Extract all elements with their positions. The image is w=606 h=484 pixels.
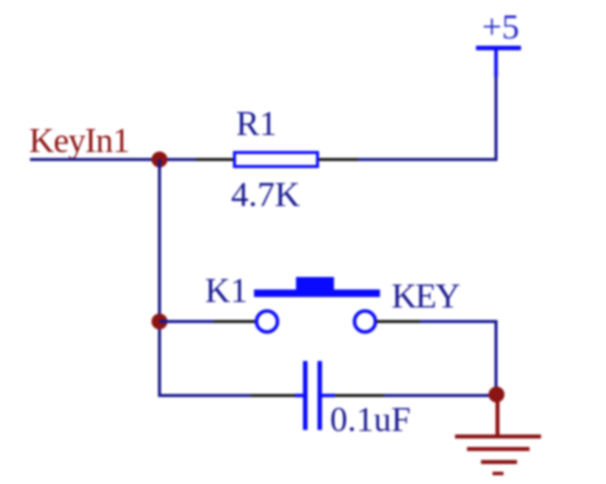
capacitor C1 plate right	[318, 361, 323, 430]
ground bar 4	[493, 472, 504, 476]
ground bar 3	[481, 460, 517, 464]
node A junction dot	[152, 152, 168, 168]
svg-text:4.7K: 4.7K	[231, 175, 300, 214]
resistor R1 pin 1	[196, 158, 233, 161]
resistor R1 body	[235, 153, 318, 167]
switch K1 contact circle left	[257, 311, 278, 332]
capacitor C1 pin 1	[251, 394, 296, 397]
resistor R1 pin 2	[319, 158, 358, 161]
power +5 stem	[494, 49, 498, 77]
node C junction dot	[489, 387, 505, 403]
svg-text:KEY: KEY	[392, 277, 461, 316]
wire: capacitor to ground node	[384, 394, 497, 397]
ground bar 2	[467, 447, 530, 451]
switch K1 actuator bump	[296, 277, 334, 290]
ground stem	[496, 395, 500, 436]
switch K1 contact circle right	[355, 311, 376, 332]
svg-text:KeyIn1: KeyIn1	[29, 121, 129, 160]
switch K1 pin 2	[377, 320, 421, 323]
ground bar 1	[455, 435, 541, 439]
capacitor C1 lead stub right	[322, 394, 335, 398]
wire: node B to switch pin 1	[160, 320, 215, 323]
switch K1 actuator bar	[254, 290, 380, 298]
svg-text:+5: +5	[482, 8, 519, 47]
capacitor C1 pin 2	[335, 394, 384, 397]
capacitor C1 plate left	[303, 361, 308, 430]
wire: left rail vertical node A to bottom	[158, 160, 161, 396]
svg-text:K1: K1	[205, 271, 248, 310]
wire: resistor to +5 rail	[358, 76, 496, 160]
wire: KeyIn1 horizontal into node A	[30, 158, 196, 161]
wire: switch pin 2 to ground rail	[420, 322, 496, 396]
node B junction dot	[152, 314, 168, 330]
svg-text:R1: R1	[236, 104, 277, 143]
svg-text:0.1uF: 0.1uF	[330, 400, 411, 439]
power +5 bar	[476, 46, 521, 51]
wire: left rail to capacitor	[158, 394, 251, 397]
capacitor C1 lead stub left	[295, 394, 303, 398]
switch K1 pin 1	[214, 320, 256, 323]
